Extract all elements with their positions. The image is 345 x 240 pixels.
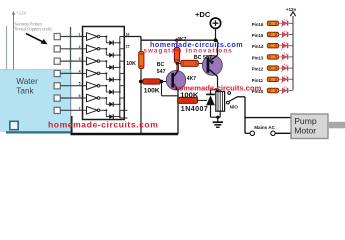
svg-text:Pin11: Pin11 (252, 78, 264, 83)
stage 7 output wiring and diode (100, 109, 124, 119)
relay RL1 coil (211, 88, 225, 117)
svg-text:homemade-circuits.com: homemade-circuits.com (48, 119, 158, 129)
svg-text:(Tinned Coppers ends): (Tinned Coppers ends) (13, 27, 53, 32)
svg-text:15: 15 (126, 45, 130, 49)
node dot +DC rail (214, 38, 218, 42)
node +12V arrow top left (12, 10, 27, 15)
buffer stage 2 triangle (83, 45, 100, 53)
svg-text:2: 2 (79, 45, 81, 49)
svg-text:3: 3 (79, 57, 81, 61)
resistor R1 (267, 21, 278, 25)
wire Q2 collector down to relay (217, 76, 219, 89)
resistor 4K7 #1 vertical (176, 40, 178, 48)
node dot at 100K left (139, 80, 143, 84)
svg-text:+DC: +DC (195, 10, 211, 19)
LED D6 (279, 75, 288, 83)
wire Q1 collector up (177, 63, 179, 70)
svg-text:swagatam innovations: swagatam innovations (144, 48, 233, 55)
pump motor box (291, 114, 345, 139)
+DC supply symbol (210, 18, 220, 28)
svg-text:Tank: Tank (16, 86, 34, 95)
svg-text:Pump: Pump (294, 116, 317, 126)
probe 1 (54, 34, 60, 40)
svg-text:4: 4 (79, 69, 81, 73)
probe 5 (54, 83, 60, 89)
resistor R2 (267, 32, 278, 36)
wire +DC to rail (215, 28, 217, 40)
svg-text:BC: BC (157, 62, 165, 68)
probe 6 (54, 95, 60, 101)
resistor R3 (267, 44, 278, 48)
node dot at 100K right (160, 80, 164, 84)
svg-text:Pin16: Pin16 (252, 22, 264, 27)
svg-text:7: 7 (79, 106, 81, 110)
buffer stage 1 triangle (83, 33, 100, 41)
node dot 4K7 junction (176, 62, 179, 65)
buffer stage 4 triangle (83, 70, 100, 78)
svg-text:5: 5 (79, 82, 81, 86)
LED D2 (279, 30, 288, 38)
svg-text:4K7: 4K7 (187, 76, 196, 82)
wire probe 4 to IC pin 4 (60, 72, 82, 74)
svg-text:homemade-circuits.com: homemade-circuits.com (174, 83, 262, 92)
svg-text:Pin12: Pin12 (252, 67, 264, 72)
wire N/O contact down (238, 97, 245, 134)
wire LED to rail (289, 78, 293, 80)
transistor Q1 BC547 (166, 70, 185, 91)
LED D5 (279, 64, 288, 72)
probe 3 (54, 58, 60, 64)
resistor 100K #1 horizontal (143, 79, 161, 84)
svg-text:BC 557: BC 557 (194, 55, 212, 61)
svg-text:1: 1 (79, 33, 81, 37)
probe 2 (54, 46, 60, 52)
stage 2 output wiring and diode (100, 48, 124, 58)
buffer stage 7 triangle (83, 107, 100, 115)
wire to Q2 base (177, 62, 181, 64)
mains terminal 1 (250, 131, 254, 135)
buffer stage 6 triangle (83, 94, 100, 102)
water tank (0, 26, 71, 133)
wire LED to rail (289, 22, 293, 24)
wire LED to rail (289, 90, 293, 92)
transistor Q2 BC557 (202, 55, 222, 76)
wire probe 2 to IC pin 2 (60, 48, 82, 50)
wire Q1 emitter down to ground rail (177, 90, 179, 134)
label: Sensing Probes (Tinned Coppers ends) (13, 22, 53, 32)
wire probe 6 to IC pin 6 (60, 97, 82, 99)
resistor R5 (267, 66, 278, 70)
wire 100K right node down and jog to ground riser (162, 82, 179, 96)
relay contact pivot and arm (227, 96, 239, 104)
stage 5 output wiring and diode (100, 85, 124, 95)
wire LED to rail (289, 34, 293, 36)
wire LED to rail (289, 67, 293, 69)
stage 6 output wiring and diode (100, 97, 124, 107)
pin 9 stub (120, 117, 128, 119)
wire rail to Q2 emitter (217, 40, 219, 55)
+V rail horizontal (141, 39, 218, 41)
diode D8 1N4007 (206, 90, 215, 117)
svg-text:+12v: +12v (286, 7, 297, 12)
resistor R4 (267, 55, 278, 59)
wire 100K to Q1 base (162, 81, 173, 83)
LED D3 (279, 41, 288, 49)
wire to pump top (245, 117, 291, 119)
svg-text:Pin15: Pin15 (252, 33, 264, 38)
svg-text:Mains AC: Mains AC (254, 125, 275, 130)
wire rail end hook left (71, 116, 73, 134)
svg-text:6: 6 (79, 94, 81, 98)
wire probe 1 to IC pin 1 (60, 36, 82, 38)
wire probe 5 to IC pin 5 (60, 85, 82, 87)
svg-text:Pin14: Pin14 (252, 44, 264, 49)
resistor R7 (267, 88, 278, 92)
wire: IC pin16 to 10K and +rail (124, 37, 141, 53)
svg-text:+12V: +12V (16, 10, 26, 15)
node dot rail/4K7#1 (175, 39, 178, 42)
LED D7 (279, 86, 288, 94)
ground rail bottom (71, 133, 179, 136)
probe 4 (54, 70, 60, 76)
wire LED to rail (289, 56, 293, 58)
ground symbol (213, 116, 223, 128)
resistor 100K #2 horizontal (178, 97, 198, 103)
buffer stage 3 triangle (83, 57, 100, 65)
wire probe 3 to IC pin 3 (60, 60, 82, 62)
stage 3 output wiring and diode (100, 60, 124, 70)
probe 7 (54, 107, 60, 113)
stage 4 output wiring and diode (100, 72, 124, 82)
wire mains to pump (275, 132, 291, 134)
svg-text:Pin13: Pin13 (252, 55, 264, 60)
svg-text:Water: Water (16, 77, 38, 86)
resistor R6 (267, 77, 278, 81)
mains terminal 2 (271, 131, 275, 135)
relay contact: NC terminal (228, 92, 231, 95)
arrow to probes (26, 34, 48, 45)
svg-text:100K: 100K (144, 88, 160, 95)
stage 1 output wiring and diode (100, 36, 124, 46)
wire to mains terminal 1 (245, 132, 250, 134)
resistor 10K vertical (139, 52, 144, 69)
wire 4K7#1 to junction and Q1 collector (176, 63, 178, 71)
op IC U1 ULN2003 box (83, 27, 125, 120)
pin 10 stub lower right (124, 109, 127, 111)
resistor 4K7 #2 horizontal (181, 60, 199, 66)
wire 100K#2 leads (198, 99, 208, 101)
wire probe 7 to IC pin 7 (60, 109, 82, 111)
wire LED to rail (289, 45, 293, 47)
buffer stage 5 triangle (83, 82, 100, 90)
svg-text:Motor: Motor (294, 126, 316, 136)
wire: +12V supply line from bottom probe to top arrow (13, 14, 15, 122)
svg-text:10K: 10K (126, 61, 136, 67)
wire 10K down to 100K node and ground rail (140, 69, 142, 134)
svg-text:16: 16 (126, 32, 130, 36)
+12v LED rail (286, 7, 297, 90)
ground/common probe bottom-left of tank (10, 121, 18, 129)
svg-text:1N4007: 1N4007 (181, 106, 209, 113)
svg-text:547: 547 (157, 69, 166, 75)
LED D4 (279, 53, 288, 61)
svg-text:N/O: N/O (230, 104, 239, 109)
COM bus inside IC (119, 41, 121, 118)
LED D1 (279, 19, 288, 27)
